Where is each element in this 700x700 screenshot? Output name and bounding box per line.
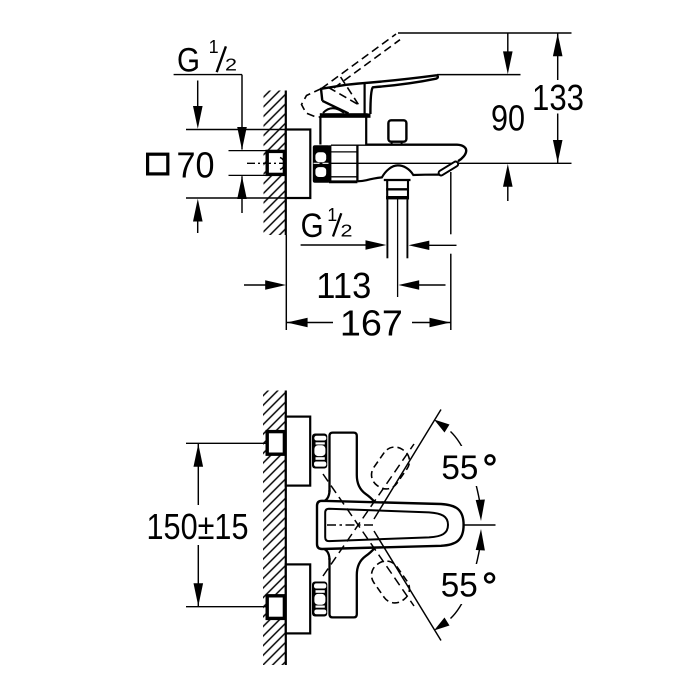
svg-text:113: 113 [316, 265, 371, 306]
svg-text:167: 167 [340, 303, 403, 344]
svg-text:150±15: 150±15 [147, 506, 249, 547]
svg-text:1: 1 [327, 205, 337, 225]
svg-text:G: G [177, 41, 200, 79]
svg-text:G: G [301, 207, 324, 245]
svg-text:70: 70 [177, 145, 215, 186]
svg-text:1: 1 [209, 37, 219, 57]
svg-text:55: 55 [441, 566, 478, 604]
svg-text:2: 2 [225, 55, 237, 75]
svg-text:55: 55 [441, 449, 478, 487]
svg-text:90: 90 [491, 98, 525, 139]
svg-text:2: 2 [341, 220, 353, 240]
svg-text:133: 133 [532, 77, 584, 118]
